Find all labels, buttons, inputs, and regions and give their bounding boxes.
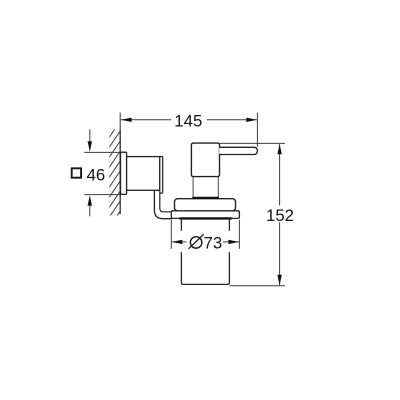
- svg-text:46: 46: [87, 166, 106, 185]
- svg-text:152: 152: [266, 206, 294, 225]
- svg-text:73: 73: [204, 234, 223, 253]
- svg-text:145: 145: [174, 112, 202, 131]
